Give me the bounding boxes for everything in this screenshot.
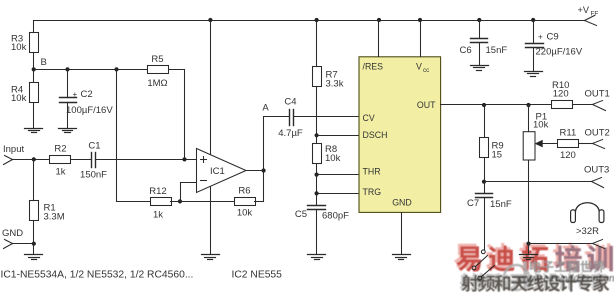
ground input GND (25, 255, 43, 260)
svg-text:1MΩ: 1MΩ (147, 78, 167, 89)
caption IC2 type (232, 270, 283, 281)
svg-text:10k: 10k (325, 153, 341, 164)
svg-text:C7: C7 (467, 198, 479, 209)
capacitor C6 (460, 18, 508, 66)
svg-text:680pF: 680pF (322, 211, 349, 222)
capacitor C4 (278, 97, 303, 140)
ground below phone node (520, 244, 538, 260)
wire Vcc to rail (418, 18, 422, 57)
svg-text:C1: C1 (88, 141, 100, 152)
wire node B bus (34, 69, 149, 71)
ground below C2 (59, 129, 77, 133)
svg-text:R12: R12 (149, 186, 166, 197)
junction R1 tap (32, 157, 36, 161)
resistor R5 (147, 54, 168, 89)
junction noninverting node (182, 157, 186, 161)
svg-text:IC2 NE555: IC2 NE555 (232, 270, 283, 281)
ground below op-amp (202, 255, 220, 260)
junction output node (262, 168, 266, 172)
wire GND connector (13, 243, 34, 245)
svg-text:DSCH: DSCH (363, 130, 388, 140)
connector GND (2, 228, 23, 249)
capacitor C7 (467, 182, 512, 250)
capacitor C9 (526, 18, 583, 72)
svg-text:4.7µF: 4.7µF (278, 128, 303, 139)
svg-text:B: B (41, 57, 47, 68)
capacitor C2 (60, 70, 114, 129)
junction P1 tap (526, 103, 530, 107)
connector OUT1 (585, 88, 610, 110)
svg-text:15nF: 15nF (490, 199, 512, 210)
ground below C6 (471, 66, 489, 71)
svg-text:3.3M: 3.3M (44, 212, 65, 223)
wire R3 to node B (33, 53, 35, 70)
svg-text:OUT3: OUT3 (584, 165, 609, 176)
svg-text:10k: 10k (237, 208, 253, 219)
svg-text:IC1-NE5534A, 1/2 NE5532, 1/2 R: IC1-NE5534A, 1/2 NE5532, 1/2 RC4560... (1, 270, 194, 281)
wire phone node to connector (529, 243, 593, 245)
svg-text:3.3k: 3.3k (326, 79, 344, 90)
svg-text:R11: R11 (560, 128, 577, 139)
wire R1 to GND node (33, 222, 35, 244)
svg-text:V: V (416, 62, 422, 72)
headphone symbol (571, 203, 604, 237)
svg-text:OUT: OUT (417, 100, 436, 110)
connector phone return (593, 240, 605, 249)
wire THR to TRG node (316, 175, 318, 194)
resistor R3 (11, 33, 39, 54)
svg-text:+V: +V (578, 5, 590, 15)
svg-text:/RES: /RES (363, 62, 384, 72)
svg-text:10k: 10k (533, 120, 549, 131)
resistor R12 (149, 186, 171, 221)
resistor R11 (558, 128, 579, 162)
junction rail to R7 (315, 18, 319, 67)
svg-text:GND: GND (2, 228, 23, 239)
svg-text:220µF/16V: 220µF/16V (536, 47, 583, 58)
svg-text:1k: 1k (153, 210, 163, 221)
wire THR pin (317, 174, 359, 176)
resistor R1 (30, 160, 65, 223)
wire op-amp V+ from rail (208, 18, 212, 155)
svg-text:IC1: IC1 (210, 166, 225, 177)
junction GND node (32, 242, 36, 255)
ground below C9 (525, 72, 543, 77)
svg-text:GND: GND (392, 198, 412, 208)
connector Input (3, 144, 24, 165)
junction R9 tap (482, 103, 486, 107)
wire positive supply rail (34, 20, 585, 22)
svg-text:R5: R5 (151, 54, 163, 65)
svg-text:1k: 1k (55, 167, 65, 178)
wire TRG pin (317, 193, 359, 195)
timer IC2 NE555 (359, 57, 441, 213)
node B (32, 57, 47, 72)
svg-text:+: + (73, 90, 78, 99)
svg-text:C9: C9 (547, 32, 559, 43)
wire rail to R3 (33, 21, 35, 33)
svg-text:120: 120 (560, 150, 576, 161)
svg-text:FF: FF (591, 11, 599, 18)
wire op-amp V- to ground (210, 187, 212, 255)
svg-text:150nF: 150nF (80, 170, 107, 181)
wire C1 to op-amp input (96, 159, 197, 161)
connector OUT3 (584, 165, 609, 188)
ground below 555 (393, 255, 411, 260)
wire R10 to OUT1 (573, 104, 593, 106)
wire /RES to rail (377, 18, 381, 57)
wire OUT3 (485, 181, 592, 183)
resistor R4 (11, 70, 39, 105)
ground below C5 (308, 255, 326, 260)
svg-text:C6: C6 (460, 45, 472, 56)
resistor R8 (313, 136, 341, 165)
svg-text:120: 120 (553, 89, 569, 100)
wire op-amp output (247, 170, 264, 172)
wire R9 to OUT3 node (484, 159, 486, 182)
wire R5 to noninverting input (169, 70, 185, 160)
resistor R2 (50, 144, 71, 178)
svg-text:10k: 10k (11, 93, 27, 104)
wire C4 to CV pin (294, 116, 359, 118)
junction TRG node (315, 191, 319, 195)
wire R2 to C1 (71, 159, 92, 161)
wire R7 to DSCH node (316, 88, 318, 136)
wire R8 to THR node (316, 165, 318, 175)
svg-text:C2: C2 (81, 89, 93, 100)
caption IC1 types (1, 270, 194, 281)
svg-text:CV: CV (363, 113, 375, 123)
junction C2 tap (65, 67, 69, 71)
wire R4 to ground (33, 104, 35, 129)
junction DSCH node (315, 133, 319, 137)
wire DSCH pin (317, 135, 359, 137)
resistor R7 (313, 67, 344, 90)
wire R11 to OUT2 (579, 143, 593, 145)
ground below R4 (25, 129, 43, 133)
junction THR node (315, 173, 319, 177)
connector OUT2 (585, 128, 610, 149)
svg-text:10k: 10k (11, 42, 27, 53)
svg-text:OUT2: OUT2 (585, 128, 610, 139)
wire inverting node to R6 (181, 201, 235, 203)
svg-text:+: + (538, 33, 543, 42)
power terminal +VFF (578, 5, 599, 25)
svg-text:Input: Input (3, 144, 24, 155)
junction inverting node (178, 183, 197, 204)
svg-text:15: 15 (492, 150, 503, 161)
svg-text:THR: THR (363, 167, 381, 177)
svg-text:R6: R6 (238, 186, 250, 197)
wire B to R12 (117, 70, 151, 202)
svg-text:15nF: 15nF (486, 45, 508, 56)
resistor R10 (552, 80, 573, 109)
svg-text:OUT1: OUT1 (585, 88, 610, 99)
svg-text:cc: cc (423, 67, 429, 74)
svg-text:A: A (262, 103, 269, 114)
wire R12 to inverting node (171, 201, 181, 203)
junction phone node (526, 242, 530, 246)
wire P1 to phone node (528, 161, 530, 244)
svg-text:C4: C4 (284, 97, 296, 108)
svg-text:www.eeworld.com.cn: www.eeworld.com.cn (519, 274, 614, 285)
resistor R6 (235, 186, 256, 219)
potentiometer P1 (523, 105, 557, 161)
resistor R9 (480, 105, 504, 161)
svg-text:C5: C5 (295, 209, 307, 220)
wire input to R2 (13, 159, 50, 161)
junction OUT3 node (482, 180, 486, 184)
svg-text:R2: R2 (54, 144, 66, 155)
svg-text:>32R: >32R (576, 226, 599, 237)
capacitor C5 (295, 194, 349, 255)
svg-text:100µF/16V: 100µF/16V (66, 105, 113, 116)
wire R6 to output (255, 171, 264, 202)
node A wire to C4 (262, 103, 289, 171)
op-amp IC1 (197, 149, 247, 193)
svg-text:TRG: TRG (363, 187, 382, 197)
wire 555 GND pin (401, 213, 403, 255)
junction R12 branch (114, 67, 118, 71)
wire OUT bus (441, 104, 552, 106)
capacitor C1 (80, 141, 107, 181)
switch jack contact (472, 250, 494, 280)
